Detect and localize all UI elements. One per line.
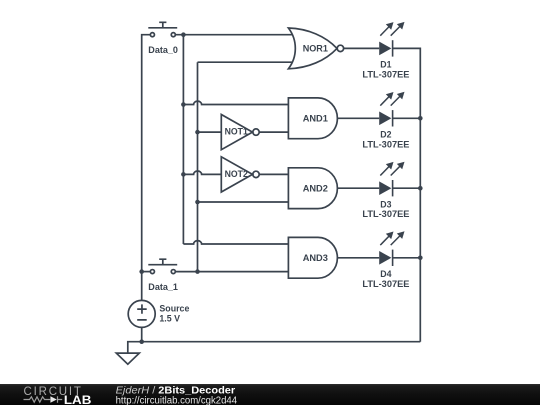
svg-text:NOT1: NOT1	[225, 127, 249, 138]
svg-text:AND1: AND1	[303, 114, 329, 125]
svg-text:NOT2: NOT2	[225, 169, 248, 180]
svg-text:Data_1: Data_1	[148, 282, 178, 293]
svg-text:1.5 V: 1.5 V	[159, 314, 180, 325]
svg-text:Data_0: Data_0	[148, 45, 178, 56]
svg-text:http://circuitlab.com/cgk2d44: http://circuitlab.com/cgk2d44	[116, 396, 238, 406]
svg-text:LAB: LAB	[64, 394, 92, 405]
svg-text:LTL-307EE: LTL-307EE	[362, 279, 410, 290]
svg-text:AND2: AND2	[303, 184, 328, 195]
svg-text:AND3: AND3	[303, 253, 328, 264]
svg-text:LTL-307EE: LTL-307EE	[362, 69, 410, 80]
svg-text:LTL-307EE: LTL-307EE	[362, 139, 410, 150]
svg-text:LTL-307EE: LTL-307EE	[362, 209, 410, 220]
svg-text:NOR1: NOR1	[303, 44, 329, 55]
